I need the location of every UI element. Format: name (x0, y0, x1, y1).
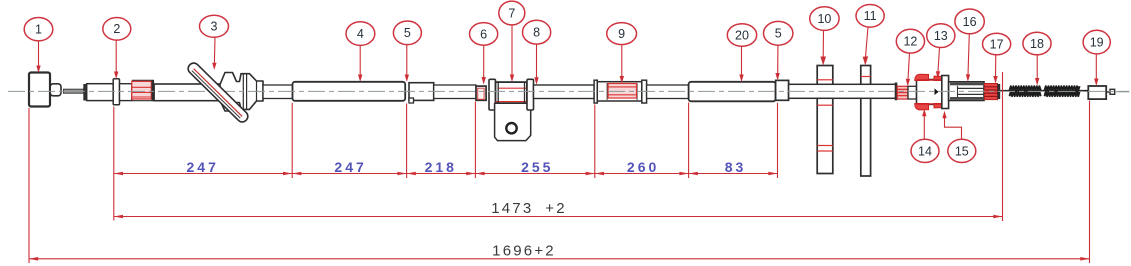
balloon 1 (24, 18, 53, 41)
svg-text:3: 3 (211, 20, 218, 34)
balloon 15 (948, 139, 976, 162)
extension line seg boundary x688.6 (688, 103, 690, 179)
balloon 3 (200, 15, 229, 37)
svg-text:1696+2: 1696+2 (492, 243, 556, 260)
svg-text:83: 83 (725, 159, 747, 175)
leader balloon 18 (1035, 55, 1039, 86)
svg-text:255: 255 (521, 159, 553, 175)
svg-text:18: 18 (1030, 37, 1044, 51)
balloon 19 (1083, 30, 1110, 54)
wire end link (1106, 91, 1110, 93)
extension line seg boundary x114 (113, 107, 115, 221)
balloon 7 (499, 1, 525, 25)
node housing H16 (949, 82, 984, 101)
wire thin tube B (263, 85, 293, 99)
leader balloon 12 (906, 53, 910, 86)
node spring seat block R17 (985, 84, 1001, 100)
BALLOONS (24, 1, 1110, 162)
leader balloon 5 (405, 45, 409, 82)
leader balloon 17 (993, 55, 997, 84)
node sleeve S9 (594, 80, 647, 103)
svg-text:7: 7 (508, 6, 515, 20)
leader balloon 11 (863, 27, 869, 65)
balloon 6 (470, 23, 498, 46)
leader balloon 5b (775, 45, 779, 80)
svg-text:260: 260 (627, 159, 659, 175)
DIMS (29, 72, 1090, 263)
node adjuster body A13 (915, 74, 942, 110)
leader balloon 10 (820, 30, 826, 65)
node tube T4b (409, 83, 434, 101)
dimension line 1473 (114, 216, 1003, 218)
wire conduit segment D (534, 85, 595, 99)
leader balloon 8 (534, 44, 538, 85)
balloon 18 (1023, 32, 1051, 55)
wire thin tube C (434, 85, 476, 99)
svg-text:1473 +2: 1473 +2 (491, 200, 567, 217)
node nut N6 (476, 86, 486, 100)
node grommet plate P10 (817, 66, 833, 174)
extension line seg boundary x292 (291, 103, 293, 178)
balloon 14 (911, 139, 939, 162)
balloon 2 (103, 18, 131, 41)
balloon 9 (607, 23, 637, 45)
dimension line segments row (114, 173, 778, 175)
balloon 11 (856, 5, 884, 28)
leader balloon 16 (966, 34, 970, 82)
leader balloon 7 (510, 25, 514, 82)
extension line seg boundary x475.5 (474, 102, 476, 179)
svg-text:16: 16 (963, 15, 977, 29)
node P1 cap (50, 84, 61, 96)
svg-text:2: 2 (113, 22, 120, 36)
extension line seg boundary x406.5 (406, 104, 408, 179)
node adjuster flange (942, 76, 949, 109)
svg-text:12: 12 (903, 35, 917, 49)
balloon 12 (896, 29, 924, 53)
svg-text:20: 20 (735, 28, 749, 42)
node bracket plate P11 (861, 66, 871, 177)
svg-text:11: 11 (864, 9, 877, 23)
component spring SP18 (1010, 86, 1080, 96)
svg-text:5: 5 (775, 27, 782, 41)
wire inner cable left (64, 89, 84, 93)
svg-text:6: 6 (480, 27, 487, 41)
dim arrows segments row (114, 172, 778, 176)
node abutment cylinder (87, 84, 114, 101)
extension line 1473 right x1002.5 (1002, 72, 1004, 221)
balloon 8 (523, 20, 551, 44)
extension line 1696 right x1089.5 (1089, 101, 1091, 264)
node crimp hatch C1 (132, 80, 154, 101)
node tube T4 (293, 82, 406, 101)
svg-text:9: 9 (618, 27, 625, 41)
leader balloon 3 (212, 38, 216, 71)
svg-text:4: 4 (357, 27, 364, 41)
svg-text:15: 15 (955, 144, 969, 158)
node tube T20 (689, 82, 776, 102)
node left cable-end block P1 (29, 73, 50, 107)
wire link tube (908, 86, 917, 99)
wire conduit segment A (154, 84, 222, 101)
svg-text:8: 8 (533, 26, 540, 40)
svg-text:247: 247 (187, 159, 219, 175)
svg-text:19: 19 (1090, 36, 1104, 50)
svg-text:247: 247 (334, 159, 366, 175)
balloon 10 (810, 7, 839, 31)
leader balloon 4 (358, 46, 362, 83)
leader balloon 20 (739, 46, 743, 82)
node flange F2 (113, 79, 119, 105)
dimension line 1696 (29, 258, 1090, 260)
balloon 20 (727, 24, 756, 47)
leader balloon 13 (936, 47, 940, 78)
svg-text:10: 10 (817, 12, 831, 26)
node flange piece right of T20 (776, 80, 789, 100)
balloon 4 (346, 22, 375, 46)
balloon 5 second (764, 21, 793, 45)
leader balloon 19 (1094, 54, 1098, 86)
svg-text:1: 1 (35, 23, 42, 37)
node bracket flange right (527, 79, 534, 110)
wire thin tube E (647, 85, 689, 99)
node end block E19 (1088, 86, 1106, 99)
node crimp C12 (897, 86, 908, 99)
extension line seg boundary x595 (594, 105, 596, 179)
extension line seg boundary x777.5 (777, 103, 779, 178)
svg-text:14: 14 (918, 144, 932, 158)
svg-text:13: 13 (934, 29, 948, 43)
node bracket bar item3 (186, 61, 250, 124)
balloon 16 (955, 9, 984, 34)
node abutment end face (83, 84, 86, 101)
leader balloon 14 (922, 109, 926, 139)
node bracket flange left (489, 79, 496, 110)
node stub tube (120, 84, 132, 101)
leader balloon 9 (620, 45, 624, 84)
svg-text:5: 5 (404, 26, 411, 40)
leader balloon 15 (942, 111, 961, 139)
node end nub (1110, 89, 1115, 94)
node boot bellows (220, 73, 263, 112)
wire end tail (1115, 91, 1130, 93)
leader balloon 6 (482, 45, 486, 84)
leader balloon 1 (36, 41, 40, 73)
svg-text:17: 17 (990, 37, 1004, 51)
balloon 5 (393, 21, 421, 45)
centerline (8, 90, 1129, 92)
balloon 13 (927, 24, 955, 48)
PARTS (8, 61, 1130, 176)
node bracket body B7 (496, 82, 527, 103)
leader balloon 2 (114, 40, 118, 79)
wire long tube through plates (789, 84, 897, 98)
wire spring rod (1000, 90, 1087, 92)
balloon 17 (983, 33, 1011, 55)
svg-text:218: 218 (425, 159, 457, 175)
node bracket tab with hole (495, 103, 531, 140)
extension line 1696 left x29 (28, 108, 30, 263)
